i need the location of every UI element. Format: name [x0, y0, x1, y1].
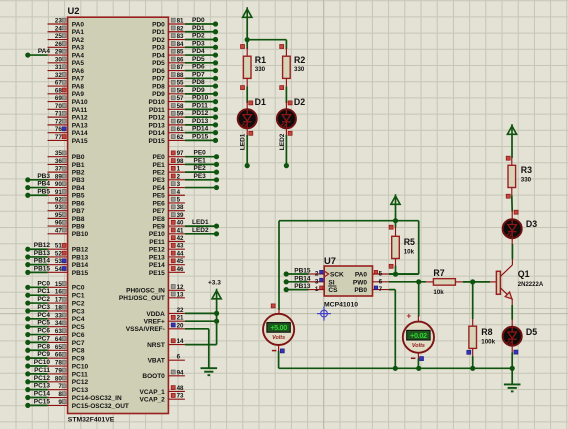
svg-text:D5: D5 [526, 327, 537, 337]
U2 pin 80 (PC12) [48, 375, 89, 386]
svg-text:45: 45 [177, 258, 184, 265]
svg-text:R2: R2 [294, 55, 305, 65]
wire net PD4 [185, 48, 218, 58]
svg-text:44: 44 [177, 250, 184, 257]
svg-text:PD12: PD12 [192, 110, 209, 117]
svg-text:PB3: PB3 [37, 173, 50, 180]
IC U2 body [68, 17, 169, 413]
svg-text:33: 33 [55, 312, 62, 319]
svg-text:PA10: PA10 [72, 99, 88, 106]
wire Q1 emitter down to D5 [511, 299, 513, 321]
wire D5 to bottom rail [511, 353, 513, 369]
svg-text:PE5: PE5 [153, 193, 166, 200]
svg-text:81: 81 [177, 18, 184, 25]
svg-text:PD11: PD11 [192, 102, 208, 109]
wire net PC12 [25, 375, 50, 385]
svg-text:8: 8 [58, 391, 62, 398]
svg-text:PD0: PD0 [192, 17, 205, 24]
svg-text:LED2: LED2 [279, 133, 286, 150]
svg-text:PE15: PE15 [149, 270, 165, 277]
wire net PA4 [25, 48, 50, 58]
svg-text:PC8: PC8 [72, 348, 85, 355]
svg-text:77: 77 [55, 134, 62, 141]
svg-text:PB14: PB14 [34, 258, 51, 265]
svg-text:PB13: PB13 [34, 250, 51, 257]
wire VM2 to bottom rail [417, 359, 419, 369]
svg-text:PD14: PD14 [149, 130, 166, 137]
Q1 collector line [500, 259, 512, 276]
wire VDDA [185, 312, 217, 314]
wire net PB14 [25, 258, 50, 268]
svg-text:6: 6 [177, 354, 181, 361]
wire net PB14 to SI [284, 275, 311, 284]
resistor R2 [283, 56, 291, 78]
U2 pin 3 (PE4) [153, 181, 185, 192]
svg-text:31: 31 [55, 64, 62, 71]
svg-text:12: 12 [177, 284, 184, 291]
wire R3 to D3 [511, 195, 513, 211]
svg-text:PC14-OSC32_IN: PC14-OSC32_IN [72, 395, 122, 402]
svg-text:51: 51 [55, 243, 62, 250]
U2 pin 22 (VDDA) [146, 307, 185, 318]
svg-text:PE1: PE1 [194, 157, 207, 164]
svg-text:PD8: PD8 [192, 79, 205, 86]
svg-text:13: 13 [177, 291, 184, 298]
wire power to R1 [246, 17, 248, 49]
wire net PC5 [25, 320, 50, 330]
wire net PB13 [25, 250, 50, 260]
svg-text:PD13: PD13 [149, 122, 166, 129]
D5 refdes [526, 327, 537, 337]
U2 pin 33 (PC4) [48, 312, 85, 323]
wire bottom rail [279, 367, 513, 369]
svg-text:PC6: PC6 [72, 332, 85, 339]
wire net PE2 [185, 165, 219, 175]
svg-text:PB13: PB13 [294, 283, 311, 290]
U2 pin 61 (PD14) [149, 126, 185, 137]
svg-text:PD7: PD7 [152, 76, 165, 83]
LED D3 [503, 219, 522, 238]
U2 pin 14 (NRST) [147, 338, 185, 349]
svg-text:PE0: PE0 [153, 154, 166, 161]
wire +5 rail down to voltmeter VM1 [278, 221, 280, 310]
svg-text:+5.00: +5.00 [270, 323, 287, 332]
wire net PD2 [185, 33, 218, 43]
wire net PC9 [25, 351, 50, 361]
svg-text:PD6: PD6 [192, 64, 205, 71]
svg-text:PC12: PC12 [34, 375, 51, 382]
svg-text:PB4: PB4 [72, 185, 85, 192]
svg-text:U2: U2 [68, 5, 80, 16]
svg-text:PB12: PB12 [34, 242, 51, 249]
svg-text:7: 7 [58, 383, 62, 390]
svg-text:1: 1 [315, 286, 319, 293]
U2 pin 17 (PC2) [48, 297, 85, 308]
svg-text:23: 23 [55, 18, 62, 25]
svg-text:21: 21 [177, 315, 184, 322]
U2 pin 42 (PE11) [149, 235, 185, 246]
R5 labels [404, 237, 415, 256]
wire net PC2 [25, 296, 50, 306]
svg-text:100k: 100k [481, 339, 495, 346]
wire VM1 to bottom rail [278, 351, 280, 368]
wire R8 to bottom rail [472, 356, 474, 368]
svg-text:PW0: PW0 [353, 279, 367, 286]
wire net PC10 [25, 359, 50, 369]
wire net PD6 [185, 64, 218, 74]
VM1 minus sign [272, 350, 277, 352]
junction VREF+ [214, 319, 219, 324]
state square D5 bottom [514, 350, 518, 354]
svg-text:PC9: PC9 [37, 351, 50, 358]
svg-text:PE2: PE2 [153, 170, 166, 177]
svg-text:61: 61 [177, 126, 184, 133]
U2 pin 2 (PE3) [153, 173, 185, 184]
svg-text:10k: 10k [404, 248, 415, 255]
svg-text:54: 54 [55, 266, 62, 273]
svg-text:46: 46 [177, 266, 184, 273]
VM2 minus sign [411, 357, 416, 359]
svg-text:82: 82 [177, 25, 184, 32]
svg-text:25: 25 [55, 33, 62, 40]
svg-text:PC7: PC7 [72, 340, 85, 347]
svg-text:2N2222A: 2N2222A [518, 282, 544, 288]
svg-text:98: 98 [177, 158, 184, 165]
U2 pin 57 (PD10) [149, 95, 185, 106]
wire net PC4 [25, 312, 50, 322]
svg-text:PC2: PC2 [37, 296, 50, 303]
svg-text:PA13: PA13 [72, 122, 88, 129]
wire net PB15 [25, 265, 50, 275]
svg-text:VBAT: VBAT [148, 358, 165, 365]
svg-text:2: 2 [177, 173, 181, 180]
svg-text:62: 62 [177, 134, 184, 141]
wire U7 PA0 to R5 bottom [389, 273, 419, 275]
U2 pin 29 (PA4) [48, 49, 85, 60]
svg-text:PC15: PC15 [34, 398, 51, 405]
wire PW0 branch down to VM2 [418, 282, 420, 317]
wire R1 to D1 [246, 86, 248, 103]
state square R5 top [389, 225, 393, 229]
D5 top lead [511, 320, 513, 328]
power arrow above R5 [391, 194, 400, 204]
svg-text:16: 16 [55, 289, 62, 296]
svg-text:36: 36 [55, 158, 62, 165]
svg-text:20: 20 [177, 322, 184, 329]
U2 pin 20 (VSSA/VREF-) [126, 322, 185, 333]
ground (VSSA) [201, 368, 218, 375]
svg-text:43: 43 [177, 243, 184, 250]
origin marker [317, 307, 331, 321]
voltmeter VM2 [403, 322, 434, 353]
svg-text:PE0: PE0 [194, 150, 207, 157]
svg-text:PB1: PB1 [72, 162, 85, 169]
svg-text:LED2: LED2 [192, 227, 209, 234]
svg-text:PC10: PC10 [72, 363, 89, 370]
svg-text:58: 58 [177, 103, 184, 110]
state square R1 top [241, 45, 245, 49]
R8 labels [481, 327, 495, 346]
wire D2 down [284, 135, 289, 168]
svg-text:PD9: PD9 [192, 87, 205, 94]
U2 pin 31 (PA6) [48, 64, 85, 75]
Q1 labels [518, 269, 544, 288]
svg-text:48: 48 [177, 385, 184, 392]
svg-text:PB12: PB12 [72, 247, 89, 254]
U2 pin 6 (VBAT) [148, 354, 185, 365]
svg-text:PC13: PC13 [72, 387, 89, 394]
U2 pin 59 (PD12) [149, 111, 185, 122]
U2 pin 9 (PC15-OSC32_OUT) [48, 399, 129, 410]
wire Q1 collector to D3 [511, 244, 513, 259]
svg-text:SI: SI [328, 279, 334, 286]
R7 right lead [455, 281, 463, 283]
svg-text:PD5: PD5 [152, 60, 165, 67]
svg-text:97: 97 [177, 150, 184, 157]
VM1 top lead [278, 309, 280, 314]
svg-text:PE14: PE14 [149, 262, 165, 269]
svg-text:76: 76 [55, 126, 62, 133]
power +3.3 label [208, 280, 221, 287]
U2 pin 51 (PB12) [48, 243, 89, 254]
svg-text:PA0: PA0 [72, 21, 85, 28]
U2 pin 87 (PD6) [152, 64, 185, 75]
LED D5 [503, 327, 522, 346]
svg-text:PA4: PA4 [38, 48, 51, 55]
svg-text:PC14: PC14 [34, 391, 51, 398]
svg-text:PE6: PE6 [153, 200, 166, 207]
wire power to R5 top [395, 204, 397, 228]
svg-text:PE2: PE2 [194, 165, 207, 172]
wire net PC0 [25, 280, 50, 290]
U7 pin 7 PB0 [354, 286, 389, 294]
svg-text:22: 22 [177, 307, 184, 314]
state square R2 bottom [280, 86, 284, 90]
U2 pin 52 (PB13) [48, 250, 89, 261]
state square VM1 plus [271, 304, 275, 308]
wire R5 bottom to PA0 row [395, 266, 397, 275]
svg-text:PE7: PE7 [153, 208, 166, 215]
U2 pin 55 (PD8) [152, 80, 185, 91]
svg-text:PH1/OSC_OUT: PH1/OSC_OUT [119, 295, 165, 302]
svg-text:LED1: LED1 [240, 133, 247, 150]
svg-text:PH0/OSC_IN: PH0/OSC_IN [126, 288, 165, 295]
wire net PD9 [185, 87, 218, 97]
wire net PD15 [185, 133, 218, 143]
wire U7 PB0 down to rail [389, 290, 395, 369]
svg-text:PD3: PD3 [152, 45, 165, 52]
wire U7 PW0 to R7 [389, 281, 426, 283]
svg-text:PD4: PD4 [192, 48, 205, 55]
VM2 bottom lead [417, 353, 419, 359]
wire net PE1 [185, 157, 219, 167]
wire net PB5 [25, 188, 50, 198]
svg-text:R5: R5 [404, 237, 415, 247]
transistor Q1 body [496, 271, 500, 294]
wire net PB15 to SCK [284, 268, 311, 277]
net label LED2 (vertical) [279, 133, 286, 150]
wire rail to ground 2 [511, 368, 513, 384]
svg-text:34: 34 [55, 320, 62, 327]
R1 labels [255, 55, 266, 73]
svg-text:+0.02: +0.02 [410, 331, 427, 340]
U2 pin 12 (PH0/OSC_IN) [126, 284, 185, 295]
svg-text:35: 35 [55, 150, 62, 157]
svg-text:3: 3 [315, 278, 319, 285]
svg-text:PB0: PB0 [72, 154, 85, 161]
U2 pin 72 (PA13) [48, 118, 88, 129]
U2 pin 30 (PA5) [48, 56, 85, 67]
svg-text:68: 68 [55, 87, 62, 94]
svg-text:PB8: PB8 [72, 216, 85, 223]
U7 pin 3 SI [309, 278, 335, 286]
svg-text:63: 63 [55, 328, 62, 335]
U2 pin 34 (PC5) [48, 320, 85, 331]
svg-text:80: 80 [55, 375, 62, 382]
svg-text:PA4: PA4 [72, 52, 85, 59]
svg-text:89: 89 [55, 173, 62, 180]
svg-text:PC13: PC13 [34, 383, 51, 390]
U2 pin 7 (PC13) [48, 383, 89, 394]
svg-text:Q1: Q1 [518, 269, 530, 279]
svg-text:PC8: PC8 [37, 343, 50, 350]
state square R2 top [280, 45, 284, 49]
svg-text:96: 96 [55, 220, 62, 227]
svg-text:PB15: PB15 [72, 270, 89, 277]
svg-text:85: 85 [177, 49, 184, 56]
D3 refdes [526, 219, 537, 229]
U2 pin 85 (PD4) [152, 49, 185, 60]
U2 pin 54 (PB15) [48, 266, 89, 277]
wire power to R3 [511, 134, 513, 159]
U2 pin 47 (PB10) [48, 227, 89, 238]
wire R7 to Q1 base [463, 281, 490, 283]
wire net LED1 [185, 219, 219, 229]
svg-text:72: 72 [55, 118, 62, 125]
svg-text:PC2: PC2 [72, 300, 85, 307]
svg-text:PD14: PD14 [192, 126, 209, 133]
wire net PC7 [25, 335, 50, 345]
D2 top lead [285, 102, 287, 110]
U2 pin 64 (PC7) [48, 336, 85, 347]
svg-text:PB15: PB15 [294, 268, 311, 275]
U2 pin 63 (PC6) [48, 328, 85, 339]
wire net PD5 [185, 56, 218, 66]
svg-text:VCAP_2: VCAP_2 [140, 397, 166, 404]
svg-text:88: 88 [177, 72, 184, 79]
U2 pin 40 (PE9) [153, 220, 185, 231]
U2 pin 69 (PA10) [48, 95, 88, 106]
svg-text:53: 53 [55, 258, 62, 265]
svg-text:40: 40 [177, 220, 184, 227]
svg-text:U7: U7 [324, 255, 336, 266]
svg-text:PE11: PE11 [149, 239, 165, 246]
svg-text:PB15: PB15 [34, 265, 51, 272]
state square D1 top [249, 101, 253, 105]
wire net PC3 [25, 304, 50, 314]
svg-text:330: 330 [294, 66, 305, 73]
U2 pin 66 (PC9) [48, 352, 85, 363]
D2 bottom lead [285, 128, 287, 135]
U2 pin 44 (PE13) [149, 250, 185, 261]
wire top rail to R2 [247, 40, 286, 49]
wire +5 rail horizontal [279, 220, 419, 222]
svg-text:PD2: PD2 [152, 37, 165, 44]
svg-text:PE3: PE3 [153, 177, 166, 184]
wire net LED2 [185, 227, 219, 237]
svg-text:PC3: PC3 [72, 308, 85, 315]
svg-text:18: 18 [55, 304, 62, 311]
svg-text:Volts: Volts [272, 335, 285, 341]
wire net PC11 [25, 367, 50, 377]
svg-text:PB14: PB14 [72, 262, 89, 269]
svg-text:15: 15 [55, 281, 62, 288]
state square D1 bottom [249, 131, 253, 135]
svg-text:PB6: PB6 [72, 200, 85, 207]
svg-text:330: 330 [521, 177, 532, 184]
svg-text:MCP41010: MCP41010 [324, 302, 358, 309]
svg-text:PC6: PC6 [37, 328, 50, 335]
svg-text:LED1: LED1 [192, 219, 209, 226]
R5 top lead [395, 227, 397, 237]
U2 pin 83 (PD2) [152, 33, 185, 44]
R8 top lead [472, 319, 474, 326]
svg-text:93: 93 [55, 204, 62, 211]
U2 pin 82 (PD1) [152, 25, 185, 36]
svg-text:17: 17 [55, 297, 62, 304]
svg-text:PC5: PC5 [72, 324, 85, 331]
svg-text:PD13: PD13 [192, 118, 209, 125]
svg-text:PB5: PB5 [37, 188, 50, 195]
U2 refdes label [68, 5, 80, 16]
U2 pin 43 (PE12) [149, 243, 185, 254]
svg-text:5: 5 [379, 271, 383, 278]
state square VM1 minus [280, 349, 284, 353]
U2 pin 21 (VREF+) [144, 315, 185, 326]
svg-text:56: 56 [177, 87, 184, 94]
svg-text:38: 38 [177, 204, 184, 211]
wire net PD8 [185, 79, 218, 89]
svg-text:29: 29 [55, 49, 62, 56]
resistor R3 [508, 165, 516, 187]
svg-text:41: 41 [177, 227, 184, 234]
resistor R7 [433, 279, 455, 286]
svg-text:55: 55 [177, 80, 184, 87]
svg-text:+: + [407, 312, 412, 321]
junction R7/R8/base [470, 279, 475, 284]
junction rail/PB0 [393, 366, 398, 371]
svg-text:14: 14 [177, 338, 184, 345]
wire R2 to D2 [285, 86, 287, 103]
U2 pin 1 (PE2) [153, 166, 185, 177]
U2 pin 56 (PD9) [152, 87, 185, 98]
U2 pin 73 (VCAP_2) [140, 393, 185, 404]
svg-text:Volts: Volts [412, 343, 425, 349]
svg-text:SCK: SCK [330, 272, 344, 279]
wire VREF+ [185, 320, 217, 322]
R2 labels [294, 55, 305, 73]
R3 top lead [511, 158, 513, 166]
svg-text:D3: D3 [526, 219, 537, 229]
svg-text:95: 95 [55, 212, 62, 219]
junction VDDA [214, 311, 219, 316]
svg-text:PE9: PE9 [153, 223, 166, 230]
svg-text:PC12: PC12 [72, 379, 89, 386]
power arrow +3.3 [212, 289, 221, 299]
junction R5 top [393, 218, 398, 223]
D3 top lead [511, 211, 513, 219]
svg-text:PC9: PC9 [72, 356, 85, 363]
